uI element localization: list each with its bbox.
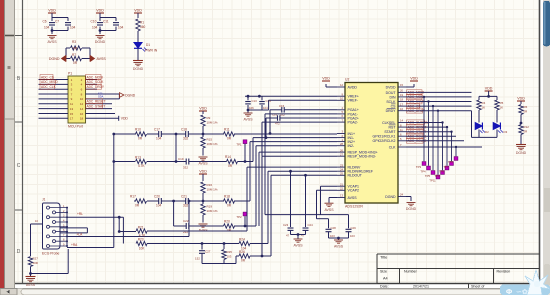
svg-text:TP3: TP3 (416, 165, 422, 169)
svg-text:CLKSEL: CLKSEL (382, 121, 395, 125)
svg-text:0R: 0R (524, 130, 528, 134)
svg-text:TP6: TP6 (448, 160, 454, 164)
svg-text:TP5: TP5 (425, 174, 431, 178)
svg-text:104: 104 (156, 203, 162, 207)
svg-text:10M 1%: 10M 1% (207, 121, 218, 125)
svg-text:TP9: TP9 (434, 174, 440, 178)
svg-text:47: 47 (286, 233, 290, 237)
svg-text:23: 23 (340, 163, 343, 167)
svg-text:104: 104 (70, 26, 76, 30)
svg-text:VREF-: VREF- (348, 99, 359, 103)
svg-text:TP11: TP11 (429, 179, 436, 183)
svg-text:ADC_CS: ADC_CS (41, 75, 54, 79)
svg-text:+LA: +LA (77, 232, 84, 236)
svg-text:ADC_DRDY: ADC_DRDY (87, 85, 105, 89)
svg-text:18: 18 (80, 117, 84, 121)
svg-text:VDD: VDD (410, 76, 418, 80)
svg-text:24: 24 (400, 193, 403, 197)
svg-text:ADC_CLK: ADC_CLK (41, 85, 57, 89)
svg-text:GPIO2/RCLK2: GPIO2/RCLK2 (373, 139, 396, 143)
svg-text:C6: C6 (43, 20, 47, 24)
svg-text:U2: U2 (345, 78, 349, 82)
svg-text:17: 17 (70, 117, 74, 121)
svg-text:0R: 0R (227, 228, 232, 232)
svg-text:C11: C11 (103, 20, 109, 24)
svg-text:AVSS: AVSS (348, 196, 358, 200)
svg-text:R16: R16 (207, 183, 213, 187)
svg-text:27: 27 (340, 152, 343, 156)
svg-text:Size: Size (380, 270, 387, 274)
svg-text:104: 104 (118, 26, 124, 30)
svg-text:DVDD: DVDD (386, 85, 396, 89)
svg-text:SCLK: SCLK (386, 100, 396, 104)
svg-text:25: 25 (340, 172, 343, 176)
svg-text:12: 12 (80, 102, 84, 106)
svg-text:DGND: DGND (95, 40, 106, 44)
svg-text:ADC_MISO: ADC_MISO (41, 80, 58, 84)
svg-text:J1: J1 (42, 198, 46, 202)
svg-text:VCAP2: VCAP2 (348, 189, 360, 193)
svg-text:MCU Port: MCU Port (68, 125, 83, 129)
svg-text:14: 14 (400, 119, 403, 123)
svg-text:C21: C21 (181, 195, 187, 199)
svg-text:16: 16 (400, 107, 403, 111)
svg-text:VDD: VDD (485, 86, 493, 90)
svg-text:VDD: VDD (96, 8, 104, 12)
svg-text:C: C (17, 163, 21, 169)
svg-text:10: 10 (80, 97, 84, 101)
svg-text:SDA: SDA (98, 95, 104, 99)
svg-text:DGND: DGND (406, 207, 417, 211)
svg-text:+RL: +RL (77, 212, 83, 216)
svg-text:103: 103 (330, 234, 335, 238)
svg-text:C16: C16 (272, 113, 278, 117)
svg-text:R17: R17 (130, 195, 136, 199)
svg-text:560: 560 (140, 25, 146, 29)
svg-text:R4: R4 (482, 101, 486, 105)
svg-text:C19: C19 (178, 157, 184, 161)
svg-text:ADC_RESET: ADC_RESET (87, 100, 106, 104)
svg-text:GPIO1/RCLK1: GPIO1/RCLK1 (373, 135, 396, 139)
svg-text:TP4: TP4 (420, 170, 426, 174)
svg-text:4.7K: 4.7K (138, 164, 145, 168)
svg-text:AVSS: AVSS (243, 118, 253, 122)
svg-text:C18: C18 (181, 128, 187, 132)
svg-text:VDD: VDD (322, 76, 330, 80)
svg-text:DOUT: DOUT (386, 91, 397, 95)
svg-text:16: 16 (80, 112, 84, 116)
svg-text:10K: 10K (139, 247, 146, 251)
svg-text:R14: R14 (225, 155, 231, 159)
svg-text:10: 10 (340, 97, 343, 101)
svg-text:ADC_START: ADC_START (87, 104, 106, 108)
svg-text:DGND: DGND (133, 67, 144, 71)
svg-text:AVSS: AVSS (293, 244, 303, 248)
svg-text:AVDD: AVDD (348, 85, 358, 89)
svg-text:D3: D3 (504, 130, 508, 134)
svg-text:21: 21 (340, 182, 343, 186)
svg-text:1K: 1K (500, 106, 504, 110)
svg-text:TP1: TP1 (236, 143, 242, 147)
svg-text:0R: 0R (227, 203, 232, 207)
svg-text:ADC_MOSI: ADC_MOSI (87, 75, 104, 79)
svg-text:0R: 0R (228, 164, 233, 168)
svg-text:TP8: TP8 (439, 170, 445, 174)
svg-text:A4: A4 (383, 277, 388, 281)
svg-text:+RA: +RA (71, 243, 78, 247)
svg-text:28: 28 (340, 142, 343, 146)
svg-text:C17: C17 (154, 128, 160, 132)
svg-text:DIN: DIN (389, 95, 396, 99)
svg-text:1K: 1K (482, 106, 486, 110)
svg-text:DGND: DGND (516, 151, 527, 155)
svg-text:ECG Probe: ECG Probe (42, 252, 59, 256)
svg-text:AVSS: AVSS (47, 40, 57, 44)
svg-text:0R: 0R (135, 203, 140, 207)
svg-text:VDD: VDD (199, 106, 207, 110)
svg-text:VDD: VDD (199, 169, 207, 173)
svg-text:24: 24 (340, 167, 343, 171)
svg-text:332: 332 (183, 203, 189, 207)
svg-text:TP7: TP7 (443, 165, 449, 169)
svg-text:DGND: DGND (49, 57, 60, 61)
svg-text:C24: C24 (308, 223, 314, 227)
svg-text:C7: C7 (55, 20, 59, 24)
svg-text:D1: D1 (146, 43, 150, 47)
svg-text:104: 104 (156, 136, 162, 140)
svg-text:DGND: DGND (385, 195, 396, 199)
svg-text:ADC_SCLK: ADC_SCLK (87, 80, 105, 84)
svg-text:R18: R18 (224, 195, 230, 199)
svg-text:15: 15 (400, 83, 403, 87)
svg-text:18: 18 (400, 98, 403, 102)
svg-text:RESP_MOD-/IN3-: RESP_MOD-/IN3- (348, 155, 377, 159)
svg-text:103: 103 (350, 234, 355, 238)
svg-text:ADS1292R: ADS1292R (345, 204, 363, 208)
svg-text:13: 13 (70, 107, 74, 111)
svg-text:0R: 0R (73, 61, 78, 65)
svg-text:AVSS: AVSS (26, 283, 36, 287)
svg-text:C15: C15 (279, 104, 285, 108)
svg-text:332: 332 (183, 136, 189, 140)
svg-text:152: 152 (195, 257, 200, 261)
svg-text:VDD: VDD (517, 96, 525, 100)
svg-text:R20: R20 (224, 220, 230, 224)
svg-text:20R: 20R (33, 261, 38, 265)
svg-text:0R: 0R (524, 110, 528, 114)
svg-text:Title: Title (380, 255, 388, 260)
svg-text:26: 26 (340, 148, 343, 152)
svg-text:P1: P1 (68, 72, 72, 76)
svg-text:13: 13 (340, 194, 343, 198)
svg-text:C29: C29 (351, 226, 357, 230)
svg-text:C27: C27 (205, 250, 211, 254)
svg-text:332: 332 (183, 166, 188, 170)
svg-text:PGA2-: PGA2- (348, 121, 359, 125)
svg-text:AVSS: AVSS (334, 245, 344, 249)
svg-text:C13: C13 (252, 99, 258, 103)
svg-text:VDD: VDD (134, 8, 142, 12)
svg-text:20: 20 (400, 89, 403, 93)
svg-text:Revision: Revision (497, 270, 511, 274)
svg-text:DRDY: DRDY (386, 109, 397, 113)
svg-text:R3: R3 (72, 40, 76, 44)
svg-text:RST: RST (389, 126, 397, 130)
svg-text:AVSS: AVSS (198, 162, 208, 166)
svg-text:10M 1%: 10M 1% (207, 209, 218, 213)
svg-text:D2: D2 (485, 130, 489, 134)
svg-text:VDD: VDD (48, 8, 56, 12)
svg-text:15: 15 (70, 112, 74, 116)
svg-text:∽✿: ∽✿ (516, 288, 528, 295)
svg-text:C23: C23 (283, 223, 289, 227)
svg-text:R27: R27 (33, 257, 39, 261)
svg-text:IN2-: IN2- (348, 144, 355, 148)
svg-text:R9: R9 (207, 116, 211, 120)
svg-text:D: D (17, 249, 21, 255)
svg-text:CS: CS (391, 105, 397, 109)
svg-text:RLDOUT: RLDOUT (348, 174, 363, 178)
svg-text:AVSS: AVSS (324, 208, 334, 212)
svg-text:R1: R1 (140, 21, 144, 25)
svg-text:C20: C20 (154, 195, 160, 199)
svg-text:R15: R15 (207, 138, 213, 142)
svg-text:0R: 0R (138, 136, 143, 140)
svg-text:104: 104 (92, 26, 98, 30)
svg-text:Number: Number (404, 270, 418, 274)
svg-text:0R: 0R (227, 136, 232, 140)
svg-text:R5: R5 (500, 101, 504, 105)
svg-text:14: 14 (80, 107, 84, 111)
svg-text:0R: 0R (73, 47, 78, 51)
svg-text:17: 17 (400, 102, 403, 106)
svg-text:22: 22 (340, 187, 343, 191)
svg-text:0R: 0R (241, 259, 246, 263)
svg-text:Φ: Φ (506, 287, 512, 295)
svg-text:103: 103 (227, 255, 232, 259)
svg-text:11: 11 (70, 102, 73, 106)
svg-text:TP2: TP2 (236, 215, 242, 219)
svg-text:AVSS: AVSS (97, 57, 107, 61)
svg-text:R11: R11 (224, 128, 230, 132)
svg-text:C28: C28 (331, 226, 337, 230)
svg-text:C10: C10 (91, 20, 97, 24)
svg-text:CLK: CLK (389, 145, 396, 149)
svg-text:104: 104 (44, 26, 50, 30)
svg-text:12: 12 (340, 83, 343, 87)
svg-text:10M 1%: 10M 1% (207, 142, 218, 146)
svg-text:START: START (384, 130, 396, 134)
svg-text:VDD: VDD (121, 117, 129, 121)
svg-text:10M 1%: 10M 1% (207, 188, 218, 192)
svg-text:C22: C22 (183, 219, 189, 223)
svg-text:R19: R19 (207, 205, 213, 209)
svg-text:19: 19 (400, 93, 403, 97)
svg-text:PWR IN: PWR IN (145, 49, 158, 53)
svg-text:DGND: DGND (125, 93, 136, 97)
